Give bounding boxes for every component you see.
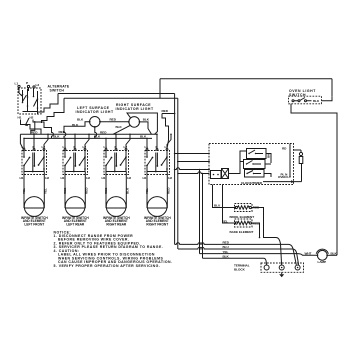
alternate switch S1 bbox=[15, 81, 42, 126]
svg-text:YEL: YEL bbox=[145, 188, 149, 194]
svg-text:H2: H2 bbox=[127, 176, 131, 180]
svg-text:YEL: YEL bbox=[22, 188, 26, 194]
infinite switch S2 (LEFT FRONT) bbox=[22, 145, 47, 175]
svg-text:BLK: BLK bbox=[77, 118, 84, 122]
svg-text:BLK: BLK bbox=[223, 254, 230, 258]
wire: right indicator feed rectangle bbox=[127, 113, 157, 134]
wire: P lead switch 4 bbox=[156, 134, 158, 148]
svg-text:YEL: YEL bbox=[223, 250, 229, 254]
svg-text:WHT: WHT bbox=[305, 252, 312, 256]
svg-text:BLK: BLK bbox=[140, 135, 147, 139]
svg-text:H1: H1 bbox=[61, 176, 65, 180]
wire: P lead switch 2 bbox=[74, 134, 76, 148]
wire: upper rail A bbox=[58, 94, 175, 245]
broil element R1 bbox=[235, 204, 253, 212]
svg-text:RED: RED bbox=[63, 187, 67, 194]
oven light fuse F1 bbox=[299, 152, 302, 155]
svg-text:L3: L3 bbox=[36, 83, 40, 87]
wire: L1 lead switch 3 bbox=[105, 138, 107, 148]
wire: drop to bus 3 bbox=[199, 170, 201, 254]
wire: bus RED bbox=[175, 243, 297, 265]
wire: drop to bus 4 bbox=[202, 174, 204, 259]
svg-text:SWITCH: SWITCH bbox=[50, 88, 65, 92]
svg-text:H1: H1 bbox=[20, 176, 24, 180]
wire: red rail left end drop to L1 bbox=[20, 134, 23, 148]
wire: feed into clock mid bbox=[178, 161, 209, 163]
wire: red bus rail bbox=[20, 133, 157, 135]
svg-text:BLK: BLK bbox=[313, 99, 320, 103]
oven lamp DS3 bbox=[316, 249, 328, 260]
svg-text:RED: RED bbox=[104, 187, 108, 194]
svg-text:H2: H2 bbox=[45, 176, 49, 180]
svg-text:RED: RED bbox=[59, 130, 66, 134]
wire: lower feed 2 into clock (bump over drop) bbox=[178, 172, 210, 174]
wire: bus YEL to center terminal bbox=[200, 254, 318, 256]
svg-text:RED: RED bbox=[85, 187, 89, 194]
terminal block TB1 bbox=[261, 263, 304, 272]
svg-text:H1: H1 bbox=[143, 176, 147, 180]
wire: bake return bbox=[251, 223, 259, 238]
wire: yellow feed to bake bbox=[223, 185, 237, 224]
infinite switch S5 (RIGHT FRONT) bbox=[145, 145, 170, 175]
clock interior: relay contacts bottom bbox=[245, 170, 265, 178]
wire: broil return bbox=[251, 208, 281, 265]
svg-text:LAMP: LAMP bbox=[318, 260, 327, 264]
wire: P lead switch 3 bbox=[115, 134, 117, 148]
svg-text:RIGHT REAR: RIGHT REAR bbox=[106, 222, 127, 226]
clock interior: timer motor M bbox=[222, 169, 229, 179]
indicator light DS2 (right surface) bbox=[116, 103, 154, 127]
svg-text:YEL: YEL bbox=[44, 188, 48, 194]
oven light switch S6 bbox=[289, 89, 322, 104]
svg-text:INDICATOR LIGHT: INDICATOR LIGHT bbox=[116, 107, 154, 111]
surface element E3 (RIGHT REAR) bbox=[106, 197, 126, 217]
clock interior wires bbox=[229, 151, 272, 177]
wire: red feed staircase to L2 of right front switch bbox=[162, 114, 175, 147]
svg-text:BLU: BLU bbox=[223, 245, 230, 249]
clock interior: input terminal box bbox=[211, 171, 222, 179]
infinite switch S3 (LEFT REAR) bbox=[63, 145, 88, 175]
svg-text:P: P bbox=[26, 81, 28, 85]
wire: rail A left staircase to alternate switch bbox=[38, 94, 59, 115]
svg-text:RED: RED bbox=[167, 187, 171, 194]
svg-text:BAKE ELEMENT: BAKE ELEMENT bbox=[230, 230, 254, 234]
surface element E1 (LEFT FRONT) bbox=[24, 197, 44, 217]
svg-text:BLK: BLK bbox=[53, 135, 60, 139]
wire: L2 lead switch 4 bbox=[167, 134, 171, 148]
wire: feed into clock top bbox=[175, 153, 209, 155]
wire: lower feed into clock (with bump over rail B) bbox=[175, 168, 209, 170]
wire: rail B left staircase bbox=[42, 98, 65, 123]
wire: L1 lead switch 4 bbox=[146, 138, 148, 148]
wire: left indicator left lead bbox=[64, 122, 90, 139]
svg-text:BROIL ELEMENT: BROIL ELEMENT bbox=[230, 215, 255, 219]
wire: bus BLU to lamp bbox=[178, 247, 299, 265]
wire: L2 lead switch 3 bbox=[126, 134, 130, 148]
svg-text:INDICATOR LIGHT: INDICATOR LIGHT bbox=[76, 110, 114, 114]
wire: L1 lead switch 1 bbox=[23, 138, 25, 148]
wire: L2 lead switch 1 bbox=[44, 134, 48, 148]
indicator light DS1 (left surface) bbox=[76, 106, 114, 128]
clock right interior rail bbox=[289, 144, 291, 178]
wire: L1 lead switch 2 bbox=[64, 138, 66, 148]
wire: indicator link (RED) bbox=[100, 121, 129, 123]
wire: upper rail B bbox=[64, 98, 178, 249]
wire: alternate switch H1 down to red rail bbox=[21, 120, 42, 135]
wire: black bus rail bbox=[24, 137, 152, 139]
svg-text:BLK: BLK bbox=[126, 187, 130, 194]
svg-text:RIGHT FRONT: RIGHT FRONT bbox=[146, 222, 168, 226]
surface element E4 leads bbox=[147, 175, 167, 209]
wire: pigtail arrow bbox=[263, 181, 302, 183]
surface element E1 leads bbox=[24, 175, 44, 209]
svg-text:RED: RED bbox=[162, 109, 169, 113]
surface element E3 leads bbox=[106, 175, 126, 209]
wire: drop from alternate switch to red rail bbox=[31, 121, 35, 134]
svg-text:H1: H1 bbox=[18, 116, 22, 120]
surface element E2 leads bbox=[65, 175, 85, 209]
svg-text:RED: RED bbox=[100, 131, 107, 135]
surface element E2 (LEFT REAR) bbox=[65, 197, 85, 217]
wire: right indicator right lead bbox=[140, 122, 152, 134]
wire: oven light switch return to lamp bbox=[291, 104, 337, 256]
wire: left indicator bottom lead (bump over red rail) bbox=[95, 127, 97, 138]
svg-text:H2: H2 bbox=[86, 176, 90, 180]
oven control (clock/timer) U1 bbox=[209, 144, 294, 185]
clock interior: relay contacts top bbox=[247, 149, 267, 159]
wire: switch feed bbox=[322, 96, 333, 101]
svg-text:BLOCK: BLOCK bbox=[234, 268, 246, 272]
svg-text:RED: RED bbox=[110, 118, 117, 122]
surface element E4 (RIGHT FRONT) bbox=[147, 197, 167, 217]
svg-text:H2: H2 bbox=[168, 176, 172, 180]
svg-text:BLK: BLK bbox=[116, 125, 123, 129]
svg-text:BLK: BLK bbox=[94, 135, 101, 139]
wire: bus BLK to left terminal bbox=[203, 258, 267, 265]
svg-text:BLK: BLK bbox=[143, 118, 150, 122]
svg-text:CLOCK/TIMER: CLOCK/TIMER bbox=[241, 181, 263, 185]
svg-text:L1: L1 bbox=[15, 82, 19, 86]
wire: P lead switch 1 bbox=[33, 134, 35, 148]
svg-text:H1: H1 bbox=[102, 176, 106, 180]
clock interior: relay contacts middle bbox=[244, 160, 266, 169]
wire: alternate switch H2 down to black rail bbox=[33, 120, 53, 139]
wire: L2 lead switch 2 bbox=[85, 134, 89, 148]
svg-text:LEFT FRONT: LEFT FRONT bbox=[24, 222, 44, 226]
wire: lamp to vertical bbox=[327, 254, 337, 256]
infinite switch S4 (RIGHT REAR) bbox=[104, 145, 129, 175]
svg-text:5. VERIFY PROPER OPERATION AFT: 5. VERIFY PROPER OPERATION AFTER SERVICI… bbox=[54, 264, 161, 268]
svg-text:RED: RED bbox=[223, 241, 230, 245]
wire: right indicator lower-left diagonal bbox=[113, 126, 130, 135]
svg-text:OVEN LT: OVEN LT bbox=[278, 175, 291, 179]
wire: blue feed to broil bbox=[213, 185, 237, 208]
ground symbol bbox=[281, 272, 283, 274]
svg-text:LEFT REAR: LEFT REAR bbox=[66, 222, 85, 226]
svg-text:H2: H2 bbox=[30, 116, 34, 120]
bake element R2 bbox=[235, 219, 253, 227]
wire: top feed line to oven light switch bbox=[160, 79, 332, 99]
